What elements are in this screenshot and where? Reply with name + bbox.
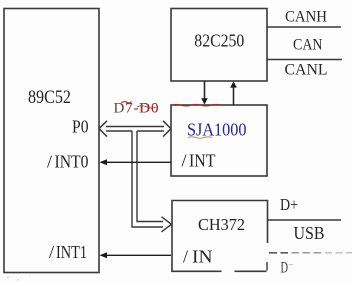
net label USB xyxy=(294,223,325,243)
net label CAN xyxy=(293,37,323,54)
CAN transceiver box 82C250 xyxy=(171,9,267,82)
svg-text:P0: P0 xyxy=(72,117,89,137)
net label CANH xyxy=(285,9,327,26)
label 89C52 xyxy=(28,87,71,108)
CAN controller box SJA1000 xyxy=(171,105,267,176)
svg-text:INT: INT xyxy=(189,151,216,171)
svg-text:SJA1000: SJA1000 xyxy=(187,120,247,140)
pin label /INT0 xyxy=(47,152,89,172)
label SJA1000 xyxy=(187,120,247,140)
bus P0 double-headed hollow arrow between 89C52 and SJA1000 xyxy=(99,121,171,137)
label 82C250 xyxy=(194,31,244,51)
pin label /INT of SJA1000 xyxy=(182,151,216,171)
svg-text:CAN: CAN xyxy=(293,37,323,54)
pin label D (D-) xyxy=(281,260,294,277)
svg-text:D0: D0 xyxy=(139,101,159,117)
svg-text:/: / xyxy=(47,152,52,172)
net label CANL xyxy=(285,62,328,79)
svg-text:D+: D+ xyxy=(280,195,298,214)
wire CANH line xyxy=(267,26,341,28)
svg-text:USB: USB xyxy=(294,223,325,243)
svg-text:D: D xyxy=(281,260,289,277)
wire /INT from SJA1000 to /INT0 with arrow xyxy=(100,159,172,165)
USB interface chip box CH372 xyxy=(171,201,267,272)
wire D- dashed line xyxy=(269,252,352,254)
net label D7-D0 (red annotated) xyxy=(114,101,159,117)
annotation red squiggle over SJA1000 top edge xyxy=(172,105,221,106)
annotation red squiggle under SJA text xyxy=(188,137,212,138)
svg-text:/: / xyxy=(183,247,188,267)
wire CAN line xyxy=(267,59,342,61)
svg-text:/: / xyxy=(182,151,187,171)
pin label /INT1 xyxy=(49,242,87,262)
bus from P0 down to CH372 (hollow) xyxy=(132,131,172,232)
MCU box 89C52 xyxy=(4,9,99,273)
wire D+ line xyxy=(268,219,342,221)
label CH372 xyxy=(198,215,245,234)
svg-text:89C52: 89C52 xyxy=(28,87,71,108)
svg-text:INT1: INT1 xyxy=(56,242,87,262)
svg-text:INT0: INT0 xyxy=(55,152,89,172)
jpeg noise specks bottom-left xyxy=(7,275,31,281)
wire /IN from CH372 to /INT1 with arrow xyxy=(100,252,172,258)
svg-text:IN: IN xyxy=(192,247,213,267)
svg-text:CANH: CANH xyxy=(285,9,327,26)
svg-text:/: / xyxy=(49,242,54,262)
wire TX arrow from 82C250 down to SJA1000 xyxy=(201,81,208,105)
svg-text:CH372: CH372 xyxy=(198,215,245,234)
svg-text:CANL: CANL xyxy=(285,62,328,79)
pin label D+ xyxy=(280,195,298,214)
pin label P0 xyxy=(72,117,89,137)
svg-text:82C250: 82C250 xyxy=(194,31,244,51)
pin label /IN of CH372 xyxy=(183,247,213,267)
wire RX arrow from SJA1000 up to 82C250 xyxy=(230,81,237,104)
